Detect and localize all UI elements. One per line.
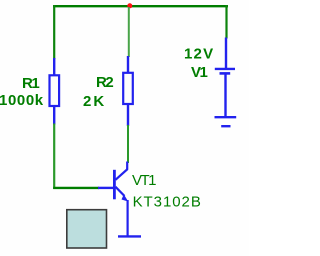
svg-text:R2: R2 [96,74,113,91]
svg-text:VT1: VT1 [132,172,156,189]
wire middle vertical lower (R2 to collector) [127,125,129,163]
ground (emitter) [118,235,141,237]
battery V1 12V [215,38,235,118]
resistor R1 [50,58,60,125]
wire top horizontal net V+ [53,5,228,7]
svg-text:R1: R1 [22,75,39,92]
svg-text:12V: 12V [184,46,214,63]
ground (battery) [215,117,237,126]
wire bottom horizontal (corner to transistor base) [53,187,99,189]
resistor R2 [123,56,133,126]
wire left vertical lower (R1 to base corner) [53,124,55,190]
wire middle vertical (junction to R2) [128,7,130,57]
wire left vertical upper (top rail to R1) [53,5,55,59]
transistor VT1 KT3102B (NPN) [98,162,128,237]
subcircuit block (teal square) [67,210,107,248]
node junction red dot [127,3,132,8]
svg-text:2K: 2K [83,93,106,110]
svg-text:KT3102B: KT3102B [133,194,202,211]
svg-text:1000k: 1000k [0,92,44,109]
wire right vertical (top rail to battery) [225,5,227,39]
svg-text:V1: V1 [191,64,208,81]
